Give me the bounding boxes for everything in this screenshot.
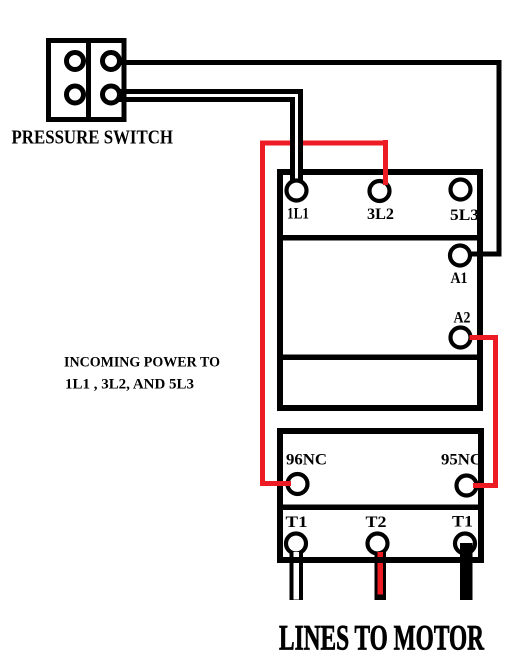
svg-text:T1: T1: [452, 514, 473, 531]
svg-text:96NC: 96NC: [286, 452, 327, 469]
svg-text:T2: T2: [366, 514, 387, 531]
svg-text:T1: T1: [286, 514, 308, 531]
svg-text:95NC: 95NC: [441, 452, 482, 469]
svg-text:5L3: 5L3: [450, 207, 479, 224]
svg-text:A1: A1: [451, 270, 468, 287]
svg-text:1L1: 1L1: [287, 206, 309, 223]
svg-text:A2: A2: [454, 310, 471, 327]
svg-text:LINES TO MOTOR: LINES TO MOTOR: [279, 618, 485, 658]
svg-text:1L1 , 3L2, AND 5L3: 1L1 , 3L2, AND 5L3: [65, 377, 194, 393]
svg-text:PRESSURE SWITCH: PRESSURE SWITCH: [12, 127, 174, 149]
svg-text:3L2: 3L2: [367, 206, 394, 223]
svg-text:INCOMING POWER TO: INCOMING POWER TO: [64, 355, 220, 371]
